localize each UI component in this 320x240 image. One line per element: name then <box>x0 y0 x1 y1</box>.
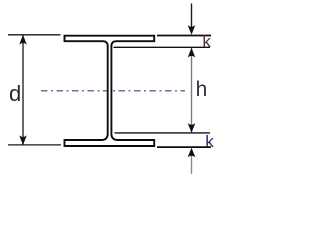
top stub arrowhead down <box>188 25 196 35</box>
dimension h line <box>191 48 193 133</box>
svg-text:d: d <box>9 81 21 106</box>
centerline (dash-dot neutral axis) <box>41 90 185 92</box>
top stub leader line <box>191 4 193 29</box>
svg-text:k: k <box>202 32 211 51</box>
dimension d arrowhead up <box>19 35 27 45</box>
bottom stub leader line <box>191 155 193 174</box>
dimension d arrowhead down <box>19 135 27 145</box>
dimension d line <box>22 35 24 145</box>
k-line top (fillet toe) <box>114 46 211 48</box>
dimension d extension line bottom <box>8 144 61 146</box>
bottom stub arrowhead up <box>188 148 196 158</box>
svg-text:k: k <box>205 132 214 151</box>
I-beam outline <box>65 36 155 146</box>
flange top extension line right <box>157 35 211 37</box>
svg-text:h: h <box>196 78 208 101</box>
k-line bottom (fillet toe) <box>115 132 211 134</box>
dimension h arrowhead down <box>188 123 196 133</box>
dimension h arrowhead up <box>188 48 196 58</box>
dimension d extension line top <box>8 34 61 36</box>
flange bottom extension line right <box>157 146 211 148</box>
